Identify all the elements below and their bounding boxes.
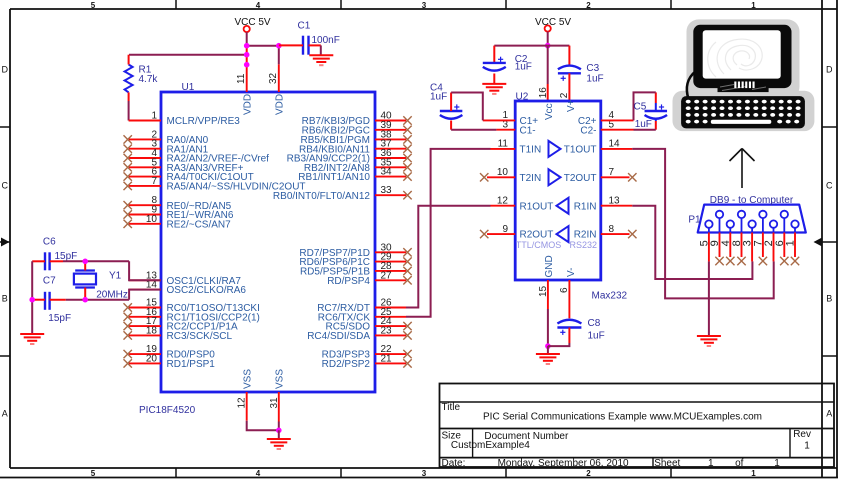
power symbol VCC 5V (left): [244, 26, 250, 32]
svg-text:34: 34: [381, 167, 393, 178]
IC U1 PIC18F4520 body: [161, 92, 375, 392]
C6 right lead: [50, 260, 63, 262]
wire VCC2 rail right to C3: [548, 45, 570, 47]
C4 top lead: [450, 93, 452, 112]
svg-text:B: B: [2, 294, 8, 304]
svg-text:33: 33: [381, 185, 393, 196]
P1 pin circles: [705, 211, 799, 233]
svg-text:RC4/SDI/SDA: RC4/SDI/SDA: [307, 331, 370, 342]
C5 top lead blue segment: [655, 103, 657, 111]
U1 pin 12 stub: [246, 392, 248, 421]
U1 right no-connect X marks: [403, 116, 411, 367]
U2 buffer triangle R1: [557, 198, 569, 214]
wire branch down to U1 pin 32: [278, 46, 280, 65]
svg-text:OSC2/CLKO/RA6: OSC2/CLKO/RA6: [167, 285, 247, 296]
svg-text:RC3/SCK/SCL: RC3/SCK/SCL: [167, 331, 233, 342]
C1 right lead: [309, 44, 321, 46]
C5 plus sign: [659, 104, 664, 109]
capacitor C7 plates: [45, 292, 50, 310]
svg-text:C7: C7: [43, 276, 56, 287]
svg-text:A: A: [826, 409, 832, 419]
C5 bottom lead blue segment: [655, 119, 657, 122]
C3 top lead: [568, 46, 570, 66]
wire C4 bottom to U2 pin3: [451, 129, 496, 131]
wire C6/C7 left rail: [31, 261, 33, 334]
resistor R1 body: [125, 65, 133, 93]
wire U2 GND to ground: [547, 309, 549, 346]
svg-text:T2IN: T2IN: [520, 173, 542, 184]
U2 pin 16 stub: [547, 84, 549, 101]
svg-text:1uF: 1uF: [430, 91, 447, 102]
svg-text:15pF: 15pF: [48, 313, 71, 324]
U1 pin 32 stub: [278, 64, 280, 92]
svg-text:Vcc: Vcc: [544, 103, 555, 120]
wire GND junction to ground symbol: [547, 346, 549, 354]
svg-text:R1OUT: R1OUT: [520, 201, 554, 212]
svg-text:R1IN: R1IN: [574, 201, 597, 212]
svg-text:1: 1: [708, 458, 714, 469]
svg-text:21: 21: [381, 353, 393, 364]
left edge center arrow: [1, 238, 10, 247]
svg-text:T1OUT: T1OUT: [564, 145, 597, 156]
svg-text:5: 5: [91, 1, 96, 10]
svg-text:6: 6: [559, 287, 570, 293]
capacitor C5 (polarized): [645, 111, 668, 119]
junction dot VSS: [276, 428, 282, 434]
wire VCC stem to junction: [246, 32, 248, 46]
U2 pin 15 stub: [547, 280, 549, 309]
svg-text:1: 1: [804, 441, 810, 452]
junction dot Y1 bottom: [82, 297, 88, 303]
svg-text:RE2/~CS/AN7: RE2/~CS/AN7: [167, 219, 232, 230]
svg-text:Monday, September 06, 2010: Monday, September 06, 2010: [498, 458, 629, 469]
svg-text:RS232: RS232: [570, 240, 598, 250]
wire C8 to GND junction: [548, 343, 570, 346]
wire C1 to ground: [320, 45, 322, 55]
svg-text:C1-: C1-: [520, 125, 536, 136]
svg-text:T1IN: T1IN: [520, 145, 542, 156]
P1 no-connect X marks: [715, 257, 799, 265]
C5 bottom lead red segment: [655, 121, 657, 130]
C1 left lead: [279, 44, 303, 46]
svg-text:2: 2: [559, 92, 570, 98]
svg-text:1: 1: [751, 469, 756, 478]
arrow to computer: [730, 149, 755, 189]
svg-text:U1: U1: [182, 82, 195, 93]
U2 pin 4 stub: [601, 119, 634, 121]
svg-text:VCC 5V: VCC 5V: [535, 17, 571, 28]
wire VSS pin12 down: [247, 421, 279, 431]
IC U2 MAX232 body: [515, 101, 601, 280]
svg-text:U2: U2: [516, 92, 529, 103]
svg-text:DB9 - to Computer: DB9 - to Computer: [710, 195, 794, 206]
junction dot VCC2: [545, 43, 551, 49]
U1 left pin names: [167, 116, 306, 370]
C8 plus sign: [560, 330, 565, 335]
U2 pin 12 stub: [491, 205, 516, 207]
right edge center arrow: [814, 238, 823, 247]
C8 bottom lead: [568, 328, 570, 344]
svg-text:16: 16: [538, 87, 549, 99]
svg-text:PIC Serial Communications Exam: PIC Serial Communications Example www.MC…: [483, 412, 762, 423]
U2 pin 9 stub: [487, 233, 515, 235]
svg-text:T2OUT: T2OUT: [564, 173, 597, 184]
U2 pin 8 no-connect X: [628, 230, 636, 238]
wire net DB9 pin5 to ground: [708, 261, 710, 335]
U2 right pin numbers: [609, 110, 621, 235]
svg-text:10: 10: [146, 214, 158, 225]
U2 buffer triangle T2: [549, 169, 561, 185]
C2 plus sign: [498, 57, 503, 62]
svg-text:Max232: Max232: [592, 291, 628, 302]
svg-text:27: 27: [381, 270, 393, 281]
C2 top lead: [493, 46, 495, 63]
ground (C1): [309, 55, 333, 65]
svg-text:1uF: 1uF: [586, 73, 603, 84]
junction dot C7 left: [29, 297, 35, 303]
border zone letters D-A: [1, 65, 833, 419]
C5 top lead red segment: [655, 92, 657, 103]
wire VCC to R1 horizontal: [129, 54, 247, 56]
svg-text:VCC 5V: VCC 5V: [234, 17, 270, 28]
wire VCC junction down to U1 pin 11: [246, 46, 248, 68]
U2 pin 3 stub: [496, 129, 515, 131]
wire VSS to ground: [278, 430, 280, 439]
wire net T1OUT to DB9 pin2: [632, 149, 773, 299]
svg-text:MCLR/VPP/RE3: MCLR/VPP/RE3: [167, 116, 241, 127]
svg-text:20MHz: 20MHz: [96, 289, 128, 300]
U2 pin 10 stub: [487, 176, 515, 178]
svg-text:7: 7: [151, 176, 157, 187]
wire VCC junction to pin32 branch: [247, 45, 279, 47]
junction dot pin11 branch: [244, 62, 250, 68]
svg-text:RD/PSP4: RD/PSP4: [327, 276, 370, 287]
U2 pin 6 stub: [568, 280, 570, 318]
svg-text:C2-: C2-: [580, 125, 596, 136]
capacitor C8 (polarized, reversed): [557, 320, 581, 328]
U2 pin 5 stub: [601, 129, 634, 131]
svg-text:3: 3: [422, 1, 427, 10]
svg-text:1uF: 1uF: [635, 119, 652, 130]
U2 pin 1 stub: [483, 119, 515, 121]
C2 bottom lead: [493, 74, 495, 84]
crystal Y1 body: [74, 271, 96, 288]
U1 left pin stubs: [129, 121, 161, 364]
svg-text:32: 32: [268, 72, 279, 84]
svg-text:RB1/INT1/AN10: RB1/INT1/AN10: [298, 172, 370, 183]
svg-text:23: 23: [381, 325, 393, 336]
svg-text:18: 18: [146, 325, 158, 336]
C4 bottom lead: [450, 121, 452, 130]
svg-text:C8: C8: [588, 318, 601, 329]
ground (DB9): [697, 336, 721, 346]
svg-text:11: 11: [236, 73, 247, 84]
U2 pin 7 no-connect X: [628, 173, 636, 181]
U2 pin 13 stub: [601, 205, 633, 207]
power symbol VCC 5V (right): [545, 25, 551, 31]
wire OSC2 vertical to pin14: [129, 290, 161, 300]
wire net R1IN to DB9 pin3: [632, 206, 752, 279]
wire C4 top to U2 pin1: [451, 93, 483, 121]
capacitor C4 (polarized): [440, 111, 463, 119]
wire R1 to U1 pin 1 horizontal: [129, 120, 161, 122]
svg-text:1uF: 1uF: [588, 331, 605, 342]
svg-text:1: 1: [751, 1, 756, 10]
svg-text:VDD: VDD: [275, 94, 286, 115]
svg-text:CustomExample4: CustomExample4: [451, 440, 530, 451]
svg-text:4: 4: [256, 1, 261, 10]
svg-text:20: 20: [146, 353, 158, 364]
junction dot GND net: [545, 343, 551, 349]
R1 bottom lead red: [128, 92, 130, 101]
svg-text:VSS: VSS: [275, 369, 286, 389]
wire net TX: U1 pin25 to T1IN: [406, 149, 491, 317]
svg-text:C1: C1: [298, 21, 311, 32]
C7 left lead: [32, 299, 45, 301]
svg-text:12: 12: [237, 397, 248, 409]
ground (U2/C8): [536, 354, 560, 364]
svg-text:B: B: [826, 294, 832, 304]
wire OSC1 vertical to pin13: [129, 261, 161, 280]
connector P1 DB9 outline: [698, 205, 806, 233]
C7 right lead: [50, 299, 66, 301]
capacitor C6 plates: [45, 252, 50, 270]
P1 pin leads: [709, 233, 795, 262]
svg-text:15pF: 15pF: [55, 251, 78, 262]
svg-text:D: D: [826, 65, 833, 75]
svg-text:2: 2: [586, 469, 591, 478]
svg-text:PIC18F4520: PIC18F4520: [139, 405, 196, 416]
svg-text:A: A: [2, 409, 8, 419]
U2 pin 7 stub: [601, 176, 630, 178]
svg-text:Title: Title: [442, 402, 461, 413]
svg-text:GND: GND: [544, 255, 555, 277]
U1 right pin stubs: [375, 121, 406, 364]
wire C5 top to U2 pin4: [634, 92, 656, 120]
svg-text:31: 31: [269, 397, 280, 409]
U1 pin 11 stub: [246, 68, 248, 93]
svg-text:C5: C5: [634, 102, 647, 113]
title block frame: [440, 384, 835, 469]
svg-text:P1: P1: [688, 214, 701, 225]
U2 buffer triangle T1: [549, 141, 561, 157]
svg-text:1: 1: [774, 458, 780, 469]
U2 left pin names: [520, 116, 554, 241]
svg-text:Sheet: Sheet: [654, 458, 680, 469]
svg-text:C: C: [826, 181, 833, 191]
ground (C2): [482, 84, 506, 94]
C3 plus sign: [561, 76, 566, 81]
wire OSC1 net top: [63, 260, 129, 262]
capacitor C1 plates: [303, 36, 309, 55]
svg-text:RD1/PSP1: RD1/PSP1: [167, 359, 216, 370]
svg-text:3: 3: [422, 469, 427, 478]
Y1 top lead: [84, 261, 86, 270]
U2 pin 10 no-connect X: [480, 173, 488, 181]
svg-text:100nF: 100nF: [312, 35, 340, 46]
svg-text:VSS: VSS: [243, 369, 254, 389]
junction dot VCC stem: [244, 43, 250, 49]
wire VCC2 stem: [547, 32, 549, 46]
C4 plus sign: [454, 104, 459, 109]
svg-text:D: D: [1, 65, 8, 75]
P1 pin numbers: [699, 240, 797, 246]
svg-text:2: 2: [586, 1, 591, 10]
U2 pin 14 stub: [601, 148, 633, 150]
svg-text:VDD: VDD: [243, 94, 254, 115]
U1 right pin names: [273, 116, 371, 370]
U1 left pin numbers: [146, 111, 158, 365]
border zone numbers 5-1: [91, 1, 757, 478]
svg-text:RB0/INT0/FLT0/AN12: RB0/INT0/FLT0/AN12: [273, 191, 371, 202]
Y1 bottom lead: [84, 288, 86, 300]
svg-text:Rev: Rev: [793, 429, 811, 440]
svg-text:V+: V+: [566, 99, 577, 112]
svg-text:Y1: Y1: [109, 271, 122, 282]
svg-text:1uF: 1uF: [515, 62, 532, 73]
junction dot Y1 top: [82, 259, 88, 265]
wire VCC2 rail left to C2: [494, 45, 547, 47]
U2 pin 11 stub: [491, 148, 516, 150]
R1 top lead: [128, 55, 130, 65]
junction dot R1 branch: [244, 52, 250, 58]
svg-text:V-: V-: [566, 268, 577, 277]
wire VSS pin31 down: [278, 422, 280, 431]
wire C5 bottom to U2 pin5: [634, 129, 656, 131]
U2 left pin numbers: [497, 110, 509, 235]
C6 left lead: [32, 260, 45, 262]
U2 pin 8 stub: [601, 233, 630, 235]
computer icon: [673, 19, 815, 131]
wire OSC2 net bottom: [66, 299, 129, 301]
U1 right pin numbers: [381, 111, 393, 365]
U2 pin 9 no-connect X: [480, 230, 488, 238]
svg-text:RD2/PSP2: RD2/PSP2: [322, 359, 371, 370]
svg-text:5: 5: [91, 469, 96, 478]
U2 buffer triangle R2: [557, 226, 569, 242]
svg-text:TTL/CMOS: TTL/CMOS: [516, 240, 562, 250]
wire VCC2 down to U2 pin16: [547, 46, 549, 84]
svg-text:of: of: [735, 458, 744, 469]
svg-text:C: C: [1, 181, 8, 191]
wire R1 to U1 pin 1 vertical: [128, 101, 130, 121]
ground (crystal): [20, 334, 44, 344]
U2 right pin names: [564, 116, 597, 241]
C3 bottom lead to U2 V+: [568, 73, 570, 101]
U1 left no-connect X marks: [124, 135, 132, 367]
svg-text:Date:: Date:: [442, 458, 466, 469]
U1 pin 31 stub: [278, 392, 280, 422]
svg-text:4.7k: 4.7k: [139, 74, 159, 85]
capacitor C3 (polarized, reversed): [558, 66, 581, 74]
wire net RX: U1 pin26 to R1OUT: [406, 206, 491, 308]
svg-text:C6: C6: [43, 237, 56, 248]
junction dot VCC/C1: [276, 43, 282, 49]
ground (U1 VSS): [267, 439, 291, 449]
capacitor C2 (polarized): [483, 63, 506, 71]
svg-text:4: 4: [256, 469, 261, 478]
